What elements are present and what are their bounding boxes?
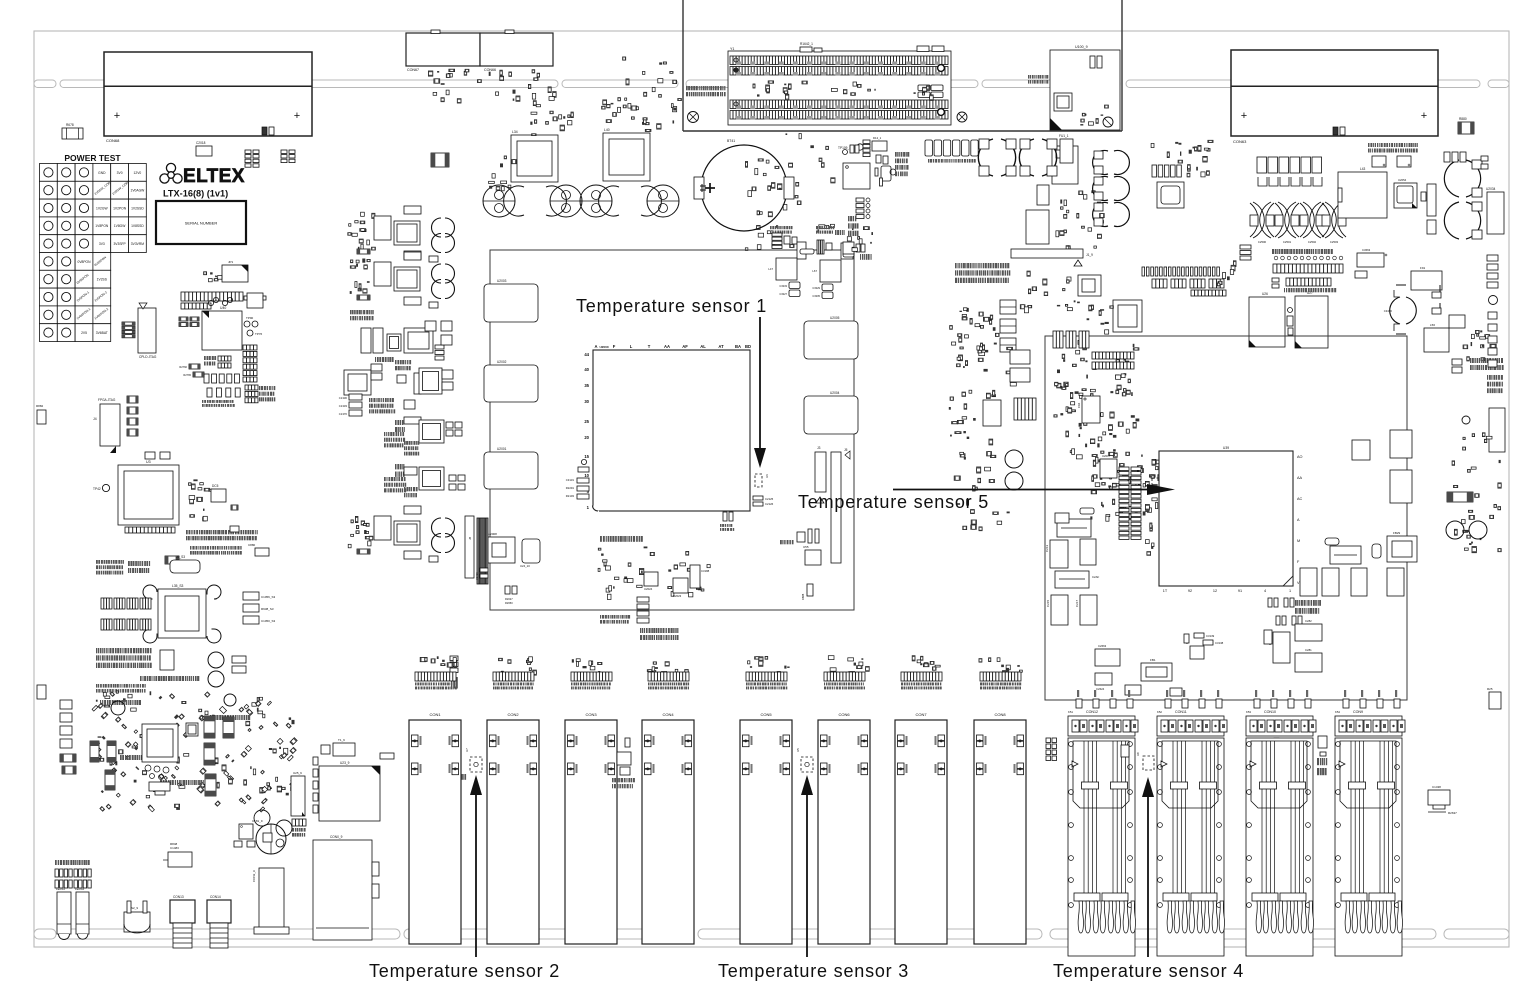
IC U52a [397,375,406,383]
capacitor row C2032_1..C2030_2 [925,140,932,156]
svg-text:C3663: C3663 [1362,248,1371,252]
inductor L46 [419,420,444,443]
label W1927 [780,540,782,544]
resistor R883 [1333,127,1338,135]
svg-text:GND: GND [98,171,106,175]
connector J5 [831,452,841,563]
capacitor C1438 [1428,790,1450,805]
capacitor stack C3131 [577,478,589,483]
DC-DC converter block L14 [367,281,370,283]
capacitor C3624 [1355,271,1367,278]
component cluster [960,454,965,457]
IC U3 [118,465,179,525]
label noise above U2049 [770,226,772,229]
IC L37 [1390,470,1412,503]
svg-text:L56: L56 [1430,323,1435,327]
pin hatch under U3 [125,527,175,533]
svg-text:U2034: U2034 [1486,187,1496,191]
svg-text:1V2SSD: 1V2SSD [131,206,144,210]
svg-text:R880: R880 [1459,117,1467,121]
svg-text:C3327: C3327 [779,292,787,296]
component cluster below CON67 [446,90,449,95]
right region outline [1045,336,1407,700]
capacitor arc pad [207,585,221,599]
resistor stack R2770 [245,385,258,390]
capacitor pair C3204 [449,475,456,481]
svg-text:U25_9: U25_9 [293,771,302,775]
svg-text:U2008: U2008 [488,532,497,536]
connector J9_S3 [170,560,200,573]
connector CPLD JTAG [138,308,156,353]
electrolytic capacitor [550,185,582,217]
component cluster left of SFP [1046,738,1051,743]
capacitor C483 [404,400,415,409]
LED LED04 [76,892,89,934]
component cluster R2472 labels [955,263,957,268]
IC U25_9 [291,776,305,816]
svg-text:C2502: C2502 [1308,240,1317,244]
svg-text:L: L [630,344,633,349]
svg-text:AO: AO [1297,455,1303,459]
resistor stack R2644 [281,150,287,153]
svg-text:U6: U6 [765,474,769,478]
IC U_1 [142,724,178,762]
annotation: temperature sensor 5 arrow [893,489,1149,491]
svg-text:C2126: C2126 [765,502,774,506]
capacitor arc pad [143,629,157,643]
resistor R1042_1 [800,47,812,52]
component cluster below CPU 2 [680,563,686,566]
inductor L41 [419,368,442,394]
svg-text:D12_1: D12_1 [873,136,882,140]
crystal Y2_9 [1054,93,1072,111]
test point TP76 [247,330,253,336]
fuse F827 [1330,546,1361,564]
noise labels below CPU [640,628,641,633]
sensor target mark TS5 [1152,478,1163,491]
svg-text:R2637: R2637 [1448,811,1457,815]
svg-text:3V0: 3V0 [117,171,123,175]
IC small [1352,440,1370,460]
svg-text:L40: L40 [604,128,610,132]
IC D12_1 [872,141,887,151]
IC U2053 [1157,182,1184,208]
annotation: temperature sensor 4 arrow [1147,795,1149,957]
inductor arc pair C3470 [1390,297,1417,324]
resistor R837 [165,556,179,564]
svg-text:U2024: U2024 [644,587,653,591]
svg-text:U2054: U2054 [1398,178,1407,182]
capacitor C3448 C3403 [1452,359,1462,365]
resistor R902 [431,153,449,167]
svg-text:L47: L47 [768,267,773,271]
svg-text:1: 1 [1289,589,1291,593]
test point between U26 U27 [1288,308,1293,313]
IC U27 [1295,296,1328,348]
fuse F824 [1057,519,1091,537]
svg-text:F91: F91 [1420,266,1426,270]
svg-text:CON68: CON68 [106,138,120,143]
svg-text:C1333: C1333 [339,404,348,408]
IC U55 [805,550,821,565]
capacitor C3139 [1194,633,1204,638]
svg-text:R2291: R2291 [566,486,575,490]
svg-text:L34: L34 [512,130,518,134]
capacitor arc pad [143,585,157,599]
capacitor arc C2713 [599,186,619,216]
component column R41D [395,360,397,364]
svg-text:CON1: CON1 [429,712,441,717]
IC U5B [1266,752,1280,765]
svg-text:BD: BD [745,344,751,349]
svg-text:A: A [594,344,597,349]
svg-text:C2018: C2018 [196,141,206,145]
hatch rows above right box [1142,267,1145,276]
svg-text:L35_S3: L35_S3 [172,584,184,588]
svg-text:20: 20 [584,435,589,440]
capacitor C285 [1372,544,1381,558]
component cluster below J1_9 [979,352,985,355]
svg-text:C2663: C2663 [1098,644,1107,648]
DIMM mounting hole left [688,112,699,123]
capacitor row C2504..C2610 [1257,157,1267,173]
annotation: temperature sensor 1 arrow [759,317,761,450]
svg-text:C2AF: C2AF [1092,575,1099,579]
inductor ring C2548_1 [1019,139,1056,176]
inductor L49 [344,370,371,395]
IC U2024 [644,572,658,586]
svg-text:R938_S3: R938_S3 [261,607,274,611]
capacitor C885 [230,526,239,532]
svg-text:CON14: CON14 [210,895,221,899]
svg-text:3V6BAT: 3V6BAT [96,331,108,335]
capacitor C1380 C1381 [361,328,371,353]
svg-text:CPLD JTAG: CPLD JTAG [139,355,157,359]
connector CON14 [207,900,231,923]
svg-text:U23_9: U23_9 [340,761,350,765]
capacitor pair C3302 [446,422,453,428]
sensor U6 (temperature sensor 1 target) [755,474,762,487]
capacitor pair right2 [204,743,215,765]
capacitor C2624 [1095,673,1112,685]
svg-text:CON63: CON63 [1233,139,1247,144]
DIMM pin row upper [730,56,948,65]
component cluster [957,503,961,505]
component cluster right edge lower [1464,548,1468,550]
capacitor C2125 C2126 [753,496,763,500]
component noise below L35 [96,648,97,653]
svg-text:AC: AC [1297,497,1303,501]
connector CON66 [480,33,553,66]
capacitor C1714 [1121,745,1129,757]
svg-text:+: + [1241,110,1247,122]
svg-text:U40: U40 [220,306,226,310]
inductor arc pair [1093,151,1108,175]
inductor ring L1288_1 [978,139,1015,176]
fuse FB29 [1387,536,1417,562]
svg-text:C1330: C1330 [339,396,348,400]
svg-text:2V5: 2V5 [81,331,87,335]
resistor R902_9 [1028,75,1029,79]
svg-text:U100_9: U100_9 [1075,45,1088,49]
svg-text:R2027: R2027 [505,597,513,601]
connector CON7 [895,720,947,944]
svg-text:+: + [114,110,120,122]
resistor array above CON5 [755,657,760,659]
svg-text:BT41: BT41 [727,139,735,143]
fuse F91 [1411,271,1442,290]
svg-text:TP90: TP90 [246,316,254,320]
sensor U5 (temperature sensor 3 target) [801,757,813,772]
pad circles row [1274,256,1278,260]
svg-text:C94: C94 [1077,402,1081,408]
svg-text:12: 12 [1213,589,1217,593]
resistor R2656 [231,505,238,510]
capacitor C281 [1295,653,1322,672]
capacitor C146 [876,155,881,163]
DIMM mounting hole right [957,112,967,122]
label noise below U40 [202,400,203,403]
svg-text:R678: R678 [66,123,74,127]
resistor R883b [37,685,46,699]
IC JP1 [222,265,248,282]
svg-text:Y1: Y1 [730,47,734,51]
capacitor C99 C100 C82 [1240,245,1251,249]
svg-text:J4: J4 [93,417,97,421]
svg-text:C217: C217 [1075,599,1079,607]
capacitor C3206 [404,417,421,424]
svg-text:CON2_9: CON2_9 [252,870,256,882]
IC U2004 [804,396,858,434]
capacitor C1511 [797,532,805,542]
fuse F826 [1055,571,1089,588]
svg-text:C2500: C2500 [1258,240,1267,244]
resistor array above CON8 [989,658,991,662]
connector CON16 [1489,408,1505,452]
ferrite bead lozenge [800,249,814,254]
svg-text:CON0_9: CON0_9 [330,835,343,839]
component cluster R877 [673,107,677,112]
svg-text:C3188: C3188 [701,569,710,573]
svg-text:R2103: R2103 [566,494,575,498]
svg-text:POWER TEST: POWER TEST [64,153,121,163]
svg-text:44: 44 [584,352,589,357]
capacitor C1490 C1483 [442,370,453,379]
capacitor C1058 [232,656,246,663]
capacitor column C1056_S3 [243,592,259,600]
board bottom breakaway slots [34,929,56,939]
CPU U2000 [593,350,750,511]
svg-text:R25: R25 [1487,687,1493,691]
capacitor C178 [1300,568,1317,596]
sensor U7 (temperature sensor 2 target) [470,757,482,772]
svg-text:C3139: C3139 [1206,634,1215,638]
inductor ring [224,694,236,706]
svg-text:U3: U3 [146,460,151,464]
inductor L35_S3 [158,589,206,638]
svg-text:C281: C281 [1305,648,1312,652]
connector J8 [465,516,474,578]
connector CON1 [409,720,461,944]
resistor R2760 R2765 [189,364,200,369]
IC U2030B [404,467,417,475]
connector J1_9 [1011,249,1083,258]
DIMM pin row lower [730,100,948,109]
svg-text:R2760: R2760 [179,365,187,369]
inductor L48 [419,467,444,490]
svg-text:15: 15 [584,454,589,459]
resistor labels above SFP [1166,690,1168,697]
label R938_S3 [128,561,130,566]
IC U2016 [1190,646,1204,659]
fuse F820 [1055,513,1069,523]
capacitor C3663 [1357,253,1384,267]
svg-text:91: 91 [1238,589,1242,593]
svg-text:F: F [613,344,616,349]
capacitor C213 [1050,540,1068,568]
capacitor C94 [1082,396,1100,423]
DIMM middle components [831,88,837,91]
capacitor C3188b [723,512,727,521]
component cluster below DIMM (TP109/JP11) [768,212,772,217]
capacitor pair right1 [204,716,215,738]
capacitor column C164x [60,700,72,709]
component cluster mid col [958,334,962,337]
svg-text:U55: U55 [803,545,809,549]
inductor X-arc C2502 [1300,202,1324,238]
inductor arc pair C2014 [1444,202,1480,239]
component noise row [190,546,191,550]
capacitor C1018 bars [395,464,397,469]
label C1050_S3 C1134_S3 [140,676,142,681]
IC DC5 [211,489,226,502]
trapezoid part [149,782,170,791]
svg-text:C3305: C3305 [812,294,820,298]
svg-text:C3333: C3333 [779,284,787,288]
IC U2023 [673,578,688,593]
component cluster around U_1 (diagonal parts) [144,749,147,751]
svg-text:J9_S3: J9_S3 [176,555,185,559]
capacitor C2604_1 [917,46,929,52]
IC U80b [186,723,198,736]
svg-text:U2000: U2000 [599,345,608,349]
IC pair U31 [1010,350,1030,364]
IC U2017 [1100,459,1117,478]
component cluster right box top [1088,405,1091,407]
IC U100_9 [1050,50,1120,130]
DC-DC converter block L30 [349,224,351,227]
component cluster R107x [847,237,851,241]
svg-text:R888: R888 [801,593,805,600]
svg-text:R1642_1: R1642_1 [800,42,813,46]
svg-text:TP76: TP76 [255,332,263,336]
component noise below L49 [369,398,370,402]
capacitor C2014 bars [395,420,397,425]
svg-text:J1_9: J1_9 [1086,253,1093,257]
svg-text:U7: U7 [465,748,469,752]
IC U2024b [1078,275,1101,296]
board top breakaway slots [34,80,56,88]
resistor R678 [62,128,83,139]
IC U2048a [797,242,806,259]
diode V17_1 [239,824,253,839]
svg-text:FU1_1: FU1_1 [1059,134,1069,138]
component bars above U2053 [1152,165,1157,177]
svg-text:ELTEX: ELTEX [183,166,245,187]
svg-text:3V3SFP: 3V3SFP [113,242,126,246]
svg-text:CON8: CON8 [994,712,1006,717]
component cluster pads [1065,304,1067,306]
capacitor D65 [145,452,155,459]
resistor rows R1686 [856,198,864,202]
svg-text:C282: C282 [1305,619,1312,623]
IC U23_9 [319,766,380,821]
IC U26_9 [1026,210,1049,244]
resistor column R29xx [450,656,458,661]
capacitor arc pad [207,629,221,643]
svg-text:CON6: CON6 [838,712,850,717]
heatsink outline CON63 (top-right) [1231,50,1438,136]
resistor R882 [37,410,46,424]
svg-text:C3329: C3329 [812,286,820,290]
IC U2001 [484,452,538,489]
component column right edge [1487,255,1498,261]
svg-text:C215: C215 [1046,599,1050,607]
capacitor C1330 C1333 C1370 [349,394,362,400]
DIMM socket Y1 outline [728,51,951,125]
inductor X-arc C2502 [1275,202,1299,238]
switch S2_9 [124,912,150,932]
svg-text:1V8GW: 1V8GW [114,224,126,228]
capacitor C3188 [690,565,700,588]
resistor pair R2111 [179,317,188,321]
svg-text:C3138: C3138 [1215,641,1224,645]
svg-text:C1050_S3: C1050_S3 [261,619,276,623]
IC U39 [1159,451,1293,586]
capacitor C1280_9 [1090,56,1095,68]
connector J3 [815,452,826,492]
component cluster C1379 [534,120,536,124]
capacitor bars [875,168,878,176]
svg-text:L67: L67 [812,269,817,273]
svg-text:U2003: U2003 [497,279,507,283]
electrolytic capacitor [483,185,515,217]
svg-text:FB1: FB1 [1150,658,1156,662]
resistor R888 [807,584,813,596]
component cluster R2845 [1318,736,1327,748]
resistor stack right of U40 [243,345,257,350]
resistor labels above SFP [1344,690,1346,697]
svg-text:AT: AT [718,344,724,349]
test point TP11x [581,459,586,464]
resistor R868 [625,738,630,747]
resistor R880 [1458,122,1474,134]
capacitor row C1444 [1444,152,1450,162]
capacitor bars below U39 [1268,598,1272,607]
component noise R930_S3 [96,560,98,564]
svg-text:CON5: CON5 [760,712,772,717]
svg-text:U24_10: U24_10 [520,564,530,568]
capacitor C217 [1080,595,1097,625]
inductor arc pair C2015 [1444,160,1480,197]
SFP cage connector CON12 [1076,699,1082,708]
battery BT41 [701,145,787,231]
svg-text:M: M [1297,539,1300,543]
svg-text:C1483: C1483 [170,846,179,850]
resistor R848 C1483 [168,852,192,867]
svg-text:3V3VRM: 3V3VRM [131,242,144,246]
svg-text:J5: J5 [844,448,848,452]
